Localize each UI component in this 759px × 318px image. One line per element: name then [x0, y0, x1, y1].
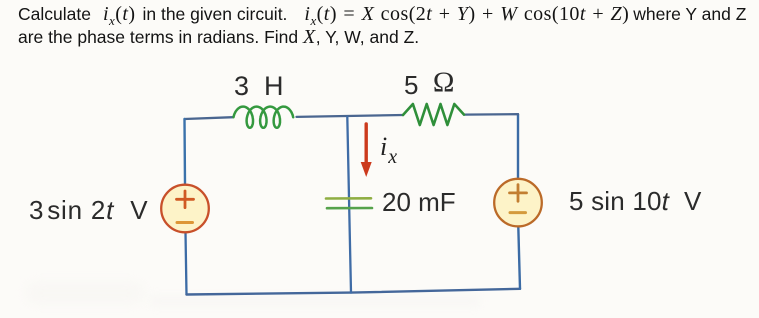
- current arrow ix (branch current): [361, 124, 372, 177]
- wire middle vertical branch: [347, 117, 351, 293]
- wire top-left segment: [185, 117, 234, 119]
- voltage source V1 (3 sin 2t V) with polarity marks: [161, 185, 209, 233]
- capacitor C1 bottom plate: [327, 207, 372, 210]
- problem statement line 1: [18, 3, 746, 29]
- wire top-right segment: [464, 113, 518, 116]
- inductor L1 3 H: [234, 107, 294, 128]
- resistor R1 5 Ohm: [403, 104, 464, 125]
- wire below left source: [186, 232, 187, 294]
- capacitor C1 top plate: [326, 197, 371, 200]
- value label 5 sin 10t V (source V2): [569, 186, 702, 217]
- wire top-middle segment: [297, 115, 404, 117]
- voltage source V2 (5 sin 10t V) with polarity marks: [494, 179, 542, 227]
- current label ix: [380, 131, 397, 169]
- problem statement line 2: [18, 26, 419, 49]
- wire right vertical lower: [518, 227, 520, 289]
- value label 3 H (inductor L1): [234, 71, 284, 102]
- wire bottom: [187, 289, 521, 295]
- scan smudge artifact: [25, 282, 145, 304]
- value label 20 mF (capacitor C1): [382, 187, 456, 218]
- wire left vertical: [183, 119, 186, 185]
- wire right vertical upper: [517, 114, 519, 179]
- value label 3 sin 2t V (source V1): [29, 195, 148, 226]
- value label 5 Ohm (resistor R1): [404, 70, 454, 101]
